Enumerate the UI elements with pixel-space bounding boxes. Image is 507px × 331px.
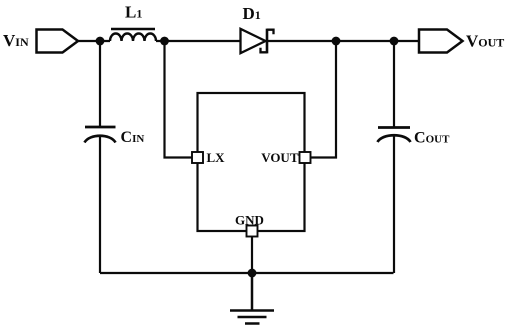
svg-text:L1: L1 xyxy=(125,3,142,22)
pin GND xyxy=(247,226,258,237)
diode D1 (schottky) xyxy=(241,29,274,54)
capacitor CIN xyxy=(85,127,116,143)
junction dot at VIN node xyxy=(96,37,105,46)
junction dot on bottom rail xyxy=(248,269,257,278)
wire COUT node down to COUT xyxy=(393,41,395,127)
wire CIN down to bottom rail xyxy=(99,137,101,273)
capacitor COUT xyxy=(378,128,411,143)
svg-text:VIN: VIN xyxy=(3,31,29,50)
inductor L1 xyxy=(110,29,156,41)
output port VOUT xyxy=(419,30,463,53)
wire inductor to diode xyxy=(156,40,241,42)
junction dot at COUT node xyxy=(390,37,399,46)
input port VIN xyxy=(37,30,79,53)
wire GND pin down to bottom rail xyxy=(251,237,253,274)
pin label GND xyxy=(235,213,264,228)
svg-text:VOUT: VOUT xyxy=(466,32,504,51)
pin LX xyxy=(192,152,203,163)
label CIN xyxy=(121,129,145,146)
svg-text:CIN: CIN xyxy=(121,129,145,146)
wire arrow tip to inductor xyxy=(78,40,110,42)
wire VOUT feedback node down and to VOUT pin xyxy=(311,41,337,158)
svg-text:D1: D1 xyxy=(243,4,261,23)
label COUT xyxy=(414,130,450,147)
wire diode to output port xyxy=(267,40,419,42)
svg-text:GND: GND xyxy=(235,213,264,228)
junction dot at LX node xyxy=(160,37,169,46)
pin VOUT xyxy=(300,152,311,163)
wire LX node down and to LX pin xyxy=(165,41,193,158)
label D1 xyxy=(243,4,261,23)
pin label LX xyxy=(207,150,226,165)
IC U1 body xyxy=(198,93,305,231)
wire COUT down to bottom rail xyxy=(393,137,395,274)
bottom rail wire xyxy=(100,272,394,274)
svg-text:LX: LX xyxy=(207,150,226,165)
label L1 xyxy=(125,3,142,22)
net label VIN xyxy=(3,31,29,50)
svg-text:COUT: COUT xyxy=(414,130,450,147)
ground xyxy=(230,273,274,324)
svg-text:VOUT: VOUT xyxy=(261,150,299,165)
wire VIN node down to CIN xyxy=(99,41,101,126)
pin label VOUT xyxy=(261,150,299,165)
net label VOUT xyxy=(466,32,504,51)
junction dot at VOUT feedback node xyxy=(332,37,341,46)
